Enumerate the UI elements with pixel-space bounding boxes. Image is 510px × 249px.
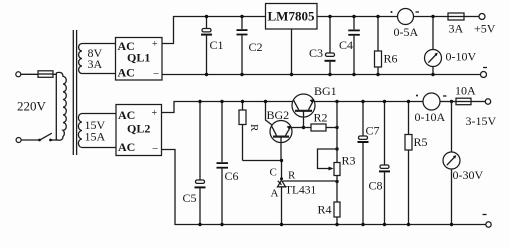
svg-text:BG1: BG1	[314, 84, 337, 98]
wire QL2 + output	[162, 102, 294, 113]
svg-text:+: +	[152, 39, 158, 50]
wire divider column top	[335, 100, 338, 163]
ammeter PA2 0-10A	[416, 93, 447, 110]
label C4	[339, 38, 353, 52]
label TL431	[285, 185, 317, 197]
label C2	[249, 40, 263, 54]
label R (rotated)	[248, 124, 260, 132]
svg-text:0-30V: 0-30V	[453, 168, 484, 182]
fuse 10A	[456, 98, 486, 105]
svg-text:AC: AC	[118, 108, 135, 122]
label A (anode)	[271, 188, 279, 200]
label 0-10A	[415, 110, 446, 124]
label BG2	[267, 108, 290, 122]
terminal 5V minus	[481, 68, 488, 78]
svg-text:15A: 15A	[85, 130, 106, 144]
svg-text:R4: R4	[318, 203, 332, 217]
label C7	[366, 124, 380, 138]
label 15V 15A	[85, 118, 106, 144]
switch K	[21, 133, 52, 141]
svg-text:3A: 3A	[88, 57, 103, 71]
label R3	[342, 154, 356, 168]
svg-text:−: −	[152, 143, 158, 155]
svg-text:R3: R3	[342, 154, 356, 168]
svg-text:−: −	[153, 68, 159, 80]
svg-text:220V: 220V	[17, 99, 47, 114]
transistor BG1	[292, 94, 315, 129]
svg-text:C: C	[270, 167, 277, 179]
label R (ref)	[288, 170, 296, 182]
label 0-30V	[453, 168, 484, 182]
ammeter PA1 0-5A	[391, 9, 420, 25]
transformer secondary winding 8V 3A	[79, 44, 82, 74]
wire BG2 collector tap	[264, 100, 272, 125]
svg-text:R5: R5	[414, 135, 428, 149]
svg-text:3A: 3A	[449, 22, 464, 36]
capacitor C7	[358, 100, 369, 226]
terminal 220V bottom input	[16, 138, 21, 143]
wire LM7805 ground pin	[290, 29, 293, 76]
svg-text:0-10V: 0-10V	[446, 50, 477, 64]
wire top rail after LM7805	[317, 16, 398, 18]
svg-text:R2: R2	[314, 111, 328, 125]
voltmeter PV1 0-10V	[425, 50, 442, 77]
terminal 3-15V +	[485, 99, 490, 104]
voltmeter PV2 0-30V	[443, 152, 460, 226]
svg-text:TL431: TL431	[285, 185, 317, 197]
label R2	[314, 111, 328, 125]
node top rail / voltmeter tap	[431, 15, 434, 18]
svg-text:R: R	[288, 170, 296, 182]
svg-text:10A: 10A	[455, 84, 476, 98]
wire output rail after BG1	[314, 101, 423, 103]
terminal +5V	[479, 14, 485, 20]
wire QL2 - output to bottom rail	[162, 150, 487, 225]
svg-text:C5: C5	[183, 191, 197, 205]
wire BG2 emitter to BG1 base	[291, 127, 304, 129]
label 8V 3A	[88, 46, 103, 71]
svg-text:LM7805: LM7805	[268, 9, 315, 24]
wire TL431 ref	[283, 180, 337, 182]
wire	[82, 43, 116, 45]
capacitor C5	[195, 100, 206, 226]
wire	[21, 73, 38, 75]
resistor R6	[375, 15, 382, 76]
label 0-5A	[394, 25, 419, 39]
bridge rectifier QL2	[116, 105, 162, 156]
wire	[53, 73, 57, 75]
capacitor C1	[201, 15, 212, 76]
wire	[432, 17, 434, 50]
svg-text:C1: C1	[210, 38, 224, 52]
potentiometer R3	[318, 149, 341, 183]
svg-text:C7: C7	[366, 124, 380, 138]
wire	[414, 16, 449, 18]
label R6	[384, 52, 398, 66]
svg-text:C8: C8	[369, 179, 383, 193]
label C (cathode)	[270, 167, 277, 179]
svg-text:C2: C2	[249, 40, 263, 54]
label 0-10V	[446, 50, 477, 64]
label BG1	[314, 84, 337, 98]
regulator U1 LM7805	[266, 4, 318, 30]
wire bottom rail 5V section	[162, 74, 481, 76]
label C3	[309, 46, 323, 60]
svg-text:A: A	[271, 188, 279, 200]
capacitor C4	[348, 15, 360, 76]
label 3A	[449, 22, 464, 36]
capacitor C8	[379, 100, 390, 226]
wire QL1 + output	[162, 17, 266, 44]
capacitor C3	[325, 15, 336, 76]
svg-text:R6: R6	[384, 52, 398, 66]
label 3-15V	[466, 114, 497, 128]
transformer secondary winding 15V 15A	[78, 114, 82, 148]
terminal 220V top input	[16, 72, 21, 77]
svg-text:+: +	[152, 108, 158, 119]
wire	[440, 102, 456, 153]
resistor R2	[304, 124, 339, 131]
wire R to BG2 base node	[243, 160, 282, 162]
transformer core	[73, 30, 76, 155]
svg-text:3-15V: 3-15V	[466, 114, 497, 128]
svg-text:0-5A: 0-5A	[394, 25, 419, 39]
TL431 U2	[278, 159, 286, 226]
svg-text:C4: C4	[339, 38, 353, 52]
label R5	[414, 135, 428, 149]
svg-text:AC: AC	[118, 66, 135, 80]
svg-text:+5V: +5V	[474, 22, 496, 36]
svg-text:AC: AC	[118, 140, 135, 154]
fuse FU (220V line)	[38, 71, 53, 78]
transformer T primary winding	[56, 72, 66, 140]
resistor R4	[334, 182, 340, 227]
svg-text:C3: C3	[309, 46, 323, 60]
wire	[82, 73, 116, 75]
svg-text:C6: C6	[225, 169, 239, 183]
node output rail voltmeter tap	[450, 100, 453, 103]
label R4	[318, 203, 332, 217]
wire	[51, 139, 57, 141]
label C8	[369, 179, 383, 193]
terminal 3-15V minus	[483, 215, 492, 228]
bridge rectifier QL1	[116, 38, 163, 81]
label C1	[210, 38, 224, 52]
svg-text:R: R	[248, 124, 260, 132]
svg-text:BG2: BG2	[267, 108, 290, 122]
transistor BG2	[270, 121, 292, 161]
label 10A	[455, 84, 476, 98]
fuse 3A	[448, 13, 479, 20]
label +5V	[474, 22, 496, 36]
label C6	[225, 169, 239, 183]
resistor R5	[405, 100, 412, 226]
capacitor C2	[237, 15, 248, 76]
capacitor C6	[217, 100, 229, 226]
svg-text:QL1: QL1	[127, 51, 150, 65]
svg-text:QL2: QL2	[127, 122, 150, 136]
resistor R	[239, 100, 246, 161]
label C5	[183, 191, 197, 205]
wire	[82, 113, 116, 115]
label 220V	[17, 99, 47, 114]
wire	[82, 147, 116, 149]
svg-text:0-10A: 0-10A	[415, 110, 446, 124]
